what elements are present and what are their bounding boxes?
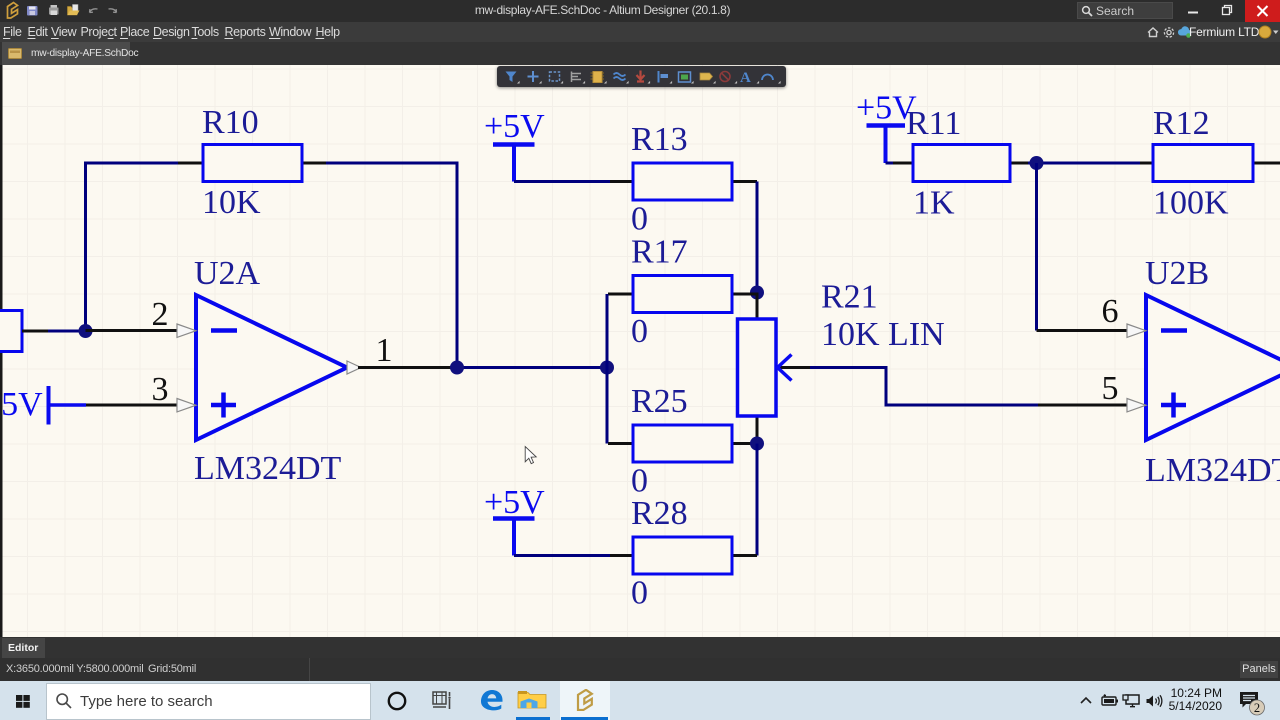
wire: pin 2 input [86,329,179,332]
svg-text:10K: 10K [202,184,261,221]
svg-text:R21: R21 [821,279,878,316]
op-amp U2B [1146,295,1280,440]
document tab content [8,48,22,59]
wire: pin 5 input [1038,404,1128,407]
resistor R12 [1140,145,1280,182]
close button [1245,0,1280,22]
pin arrow U2A output pin 1 [347,361,361,374]
document tab bar [0,42,1280,65]
wire: U2A output pin 1 [358,366,457,369]
wire: +5V to R28 [514,554,613,557]
svg-text:U2A: U2A [194,255,261,292]
taskbar: tray chevron [1079,695,1093,706]
svg-text:R13: R13 [631,121,688,158]
svg-text:+5V: +5V [0,386,43,423]
wire: pin 6 input [1037,329,1129,332]
taskbar: network icon [1122,694,1141,708]
pin arrow U2A pin 3 [177,399,196,412]
pin arrow U2B pin 5 [1127,399,1146,412]
taskbar: clock and date [1138,687,1222,713]
resistor R25 [608,425,757,462]
junction dot R11/R12 node [1030,156,1044,170]
svg-text:0: 0 [631,575,648,612]
wire: node down to U2B pin 6 [1035,163,1038,331]
svg-text:0: 0 [631,201,648,238]
svg-text:LM324DT: LM324DT [194,450,342,487]
svg-text:0: 0 [631,463,648,500]
node A junction dot [79,324,93,338]
pin arrow U2B pin 6 [1127,324,1146,337]
wire: R13 to R17/R21 node [756,182,759,293]
menu bar right icons [1140,22,1200,42]
svg-text:R10: R10 [202,104,259,141]
taskbar: altium app icon [574,689,595,711]
wire: +5V to R11 [886,162,916,165]
taskbar: battery icon [1100,694,1118,707]
svg-text:LM324DT: LM324DT [1145,452,1280,489]
svg-text:R12: R12 [1153,105,1210,142]
resistor R13 [610,163,757,200]
resistor R17 [608,276,757,313]
taskbar: cortana circle [386,690,408,712]
mouse cursor [525,447,536,464]
svg-text:3: 3 [152,371,169,408]
taskbar: altium app highlight [560,681,610,720]
svg-text:10K LIN: 10K LIN [821,316,945,353]
junction dot U2A output [450,361,464,375]
power port +5V (bottom) [484,484,545,556]
op-amp U2A [196,295,347,440]
wire: U2A output to middle node [457,366,607,369]
wire: R10 right to U2A output vertical [324,163,457,368]
junction dot middle node [600,361,614,375]
potentiometer R21 [738,293,813,444]
wire: +5V to R13 [514,180,613,183]
wire: input net into node A [45,330,80,333]
svg-text:R11: R11 [906,105,961,142]
svg-text:5: 5 [1102,370,1119,407]
power port +5V (top right) [856,90,917,164]
power port +5V (top middle) [484,108,545,182]
svg-text:2: 2 [152,296,169,333]
taskbar: running underlines [516,717,550,720]
taskbar: windows start logo [16,695,30,708]
taskbar: task view icon [432,691,452,710]
junction dot R25/R21/R28 [750,437,764,451]
svg-text:+5V: +5V [484,108,545,145]
menu bar [0,22,1280,42]
taskbar: edge browser icon [479,688,505,712]
wire: left vertical R17 to R25 [606,294,609,444]
wire: node down to R28 [756,444,759,556]
svg-text:1: 1 [376,332,393,369]
svg-text:U2B: U2B [1145,255,1209,292]
svg-text:A: A [740,70,751,86]
editor tab text [8,638,38,658]
svg-text:2: 2 [1254,701,1260,715]
wire: R21 wiper to U2B pin 5 [810,368,1040,406]
svg-text:6: 6 [1102,293,1119,330]
status bar text [6,658,144,681]
taskbar: notification icon with badge [1238,691,1268,718]
pin arrow U2A pin 2 [177,324,196,337]
resistor R28 [610,537,757,574]
wire: feedback net left vertical (node A to R10) [86,163,182,331]
svg-text:100K: 100K [1153,185,1229,222]
resistor R10 [178,145,326,182]
svg-text:R25: R25 [631,383,688,420]
svg-text:1K: 1K [913,185,955,222]
svg-text:+5V: +5V [484,484,545,521]
svg-text:R28: R28 [631,495,688,532]
editor band [0,637,1280,658]
svg-text:0: 0 [631,313,648,350]
resistor (clipped, off-sheet left) [0,311,48,352]
junction dot R13/R17/R21 [750,286,764,300]
floating toolbar [497,66,786,87]
schematic canvas [0,65,1280,637]
title bar content [0,0,130,22]
taskbar: search box [46,683,371,720]
svg-text:R17: R17 [631,234,688,271]
resistor R11 [893,145,1030,182]
sheet border left edge [0,65,3,637]
wire: pin 3 input [86,404,178,407]
windows taskbar [0,681,1280,720]
menu bar items [0,22,1280,42]
status bar [0,658,1280,681]
power port +5V (left, clipped) [0,386,86,425]
title bar [0,0,1280,22]
wire: R11 to R12 [1028,162,1142,165]
taskbar: speaker icon [1145,694,1164,708]
taskbar: file explorer icon [517,689,549,711]
